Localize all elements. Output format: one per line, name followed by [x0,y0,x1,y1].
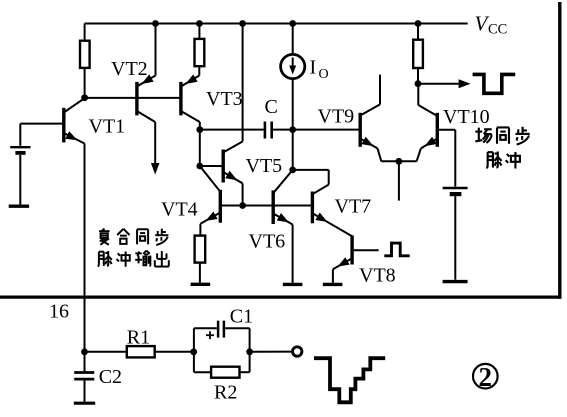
wire R2 to node J [240,371,250,373]
ground (B2) [443,280,468,283]
transistor VT10 [436,113,439,147]
transistor VT1 [62,108,65,143]
wire rail to current source Io [292,24,294,56]
waveform field sync pulse [473,74,516,93]
node F junction (VT9/VT10 emitters) [396,158,403,165]
transistor VT9 [359,113,362,147]
transistor VT3 [179,82,182,116]
transistor VT7 [311,192,314,224]
svg-text:16: 16 [49,301,69,323]
transistor VT6 [272,190,275,224]
wire capacitor C to VT9 base [273,129,360,131]
wire node B to capacitor C [200,129,264,131]
node G junction (field sync output) [415,80,422,87]
wire node I down to R2 [193,352,195,372]
svg-text:VT4: VT4 [161,199,198,221]
node rail/R VT10 junction [415,20,422,27]
svg-text:VT6: VT6 [249,231,286,253]
node E junction (VT6/VT7 collectors) [289,167,296,174]
text field sync pulse (Chinese) line 1 [475,128,491,143]
wire VT1 emitter / pin 16 line [84,144,86,352]
battery B2 (VT10 base bias) [443,187,468,190]
node J junction (C1/R2 right) [246,348,253,355]
wire VT10 base to battery B2 [437,129,455,131]
wire node B to node C [199,130,201,166]
node rail/Io junction [289,20,296,27]
wire Io to cap node [292,78,294,130]
ground (VT8 emitter) [323,283,343,286]
IC boundary box (bottom border) [0,296,562,299]
text composite sync pulse output (Chinese) line 1 [99,229,109,245]
node H junction (pin16 / R1 / C2) [81,348,88,355]
svg-text:VT7: VT7 [335,196,372,218]
wire battery to ground [19,155,21,205]
svg-text:C1: C1 [230,306,253,328]
wire VT6 emitter to ground [292,225,294,283]
svg-text:C2: C2 [99,366,122,388]
transistor VT2 [135,82,138,116]
node rail/VT2 emitter junction [152,20,159,27]
capacitor C [264,122,267,139]
ground (VT4 emitter resistor) [191,283,211,286]
wire R1 to node I [155,351,194,353]
capacitor C2 [84,352,86,371]
text composite sync pulse output (Chinese) line 2 [98,251,112,266]
waveform staircase sync output [314,358,385,402]
transistor VT8 [350,236,353,265]
svg-text:R1: R1 [127,327,150,349]
text field sync pulse (Chinese) line 2 [486,151,501,168]
wire node E to cap node [292,130,294,170]
wire VT4 emitter to resistor [199,224,201,236]
node B junction (VT3 collector / cap C) [196,126,203,133]
svg-text:I: I [310,57,317,79]
svg-text:2: 2 [479,362,493,392]
node junction (cap C / VT9 base / Io) [289,126,296,133]
svg-text:O: O [319,67,329,82]
node rail/VT5 collector junction [239,20,246,27]
svg-text:VT1: VT1 [89,116,126,138]
wire resistor to rail [198,24,200,39]
wire C1 to node J [225,327,249,329]
svg-text:VT5: VT5 [246,155,283,177]
polarity + of C1 [206,334,214,336]
svg-text:CC: CC [488,22,507,38]
wire VT3 emitter to resistor [198,66,200,75]
svg-text:VT8: VT8 [359,265,396,287]
battery B1 (VT1 base bias) [10,146,30,148]
wire node J to output terminal [250,351,293,353]
node C junction (VT4 collector / VT5 base) [196,163,203,170]
output terminal circle [293,347,302,356]
svg-text:VT9: VT9 [318,106,355,128]
wire resistor to ground [199,263,201,283]
wire C2 to ground [84,380,86,401]
wire VT5 collector to rail [242,24,244,142]
svg-text:VT3: VT3 [206,88,243,110]
transistor VT4 [219,190,222,223]
wire common base rail VT4-VT6-VT7 [220,205,312,207]
node I junction (R1 / C1 / R2) [190,348,197,355]
wire VT5 emitter to base rail [242,183,244,205]
wire resistor to node A [84,68,86,98]
resistor (VT1 collector load) [80,41,90,68]
node rail/VT3 resistor junction [196,20,203,27]
svg-text:R2: R2 [214,382,237,404]
waveform pulse at VT8 base [384,243,409,256]
wire node E to VT7 collector [293,169,329,171]
transistor VT5 [221,150,224,183]
wire rail to R1 load [84,24,86,41]
wire VT1 base lead [20,123,64,125]
resistor (VT4 emitter) [195,236,206,263]
resistor (VT10 collector load) [413,40,423,68]
resistor (VT3 emitter) [195,39,205,66]
capacitor C1 (electrolytic) [217,321,220,338]
wire node H to R1 [85,351,127,353]
wire VT8 emitter to ground [332,269,334,283]
wire node I up to C1 [193,328,195,352]
current source Io [281,54,305,78]
svg-text:VT10: VT10 [443,106,490,128]
svg-text:VT2: VT2 [111,58,148,80]
wire VT2 collector arrow (to other stage) [154,122,156,165]
node A junction (VT1 collector / VT2 base) [81,94,88,101]
Vcc rail wire [85,23,468,25]
resistor R1 [127,346,155,357]
wire tail current stub [398,161,400,200]
wire rail to R load VT10 [417,24,419,40]
resistor R2 [211,367,239,378]
ground (B1) [9,204,29,207]
figure number 2 in circle [473,364,498,389]
wire battery B2 to ground [454,196,456,280]
svg-text:C: C [265,96,278,118]
ground (VT6 emitter) [283,283,303,286]
ground (C2) [74,402,95,405]
output arrow (field sync) [418,83,460,85]
wire VT2/VT3 base line [85,97,181,99]
wire resistor to output node [417,68,419,84]
IC boundary box (right border) [558,2,561,299]
node D junction (VT5 emitter / base rail) [239,202,246,209]
